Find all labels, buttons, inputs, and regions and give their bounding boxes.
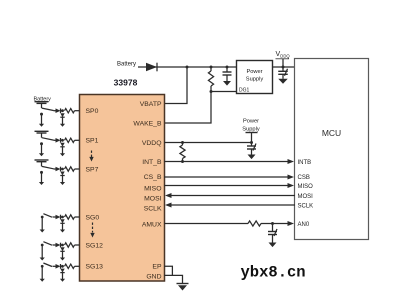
diode clamp SP1 to ground [60,143,64,154]
capacitor C1 battery input filter [223,67,232,81]
wire node down to WAKE_B pin [164,92,211,124]
wire switch rail SP1 [39,142,44,156]
ground arrow C3 [248,155,256,160]
svg-text:DG1: DG1 [239,88,250,94]
wire R3 to AN0 [261,223,288,225]
switch SG13 (to ground) [41,263,52,268]
svg-text:VBATP: VBATP [140,101,162,108]
svg-text:MISO: MISO [298,184,314,190]
wire switch rail SP0 [39,113,44,127]
MCU U2 [295,59,369,240]
wire CS_B to CSB [164,176,288,178]
svg-text:SCLK: SCLK [144,206,162,213]
svg-text:DDQ: DDQ [280,54,290,59]
junction VDDQ node [282,66,285,69]
svg-text:SG0: SG0 [86,214,100,221]
ground arrow C1 [223,81,231,86]
switch SP1 (to battery) [42,138,54,140]
wire MOSI [171,195,295,197]
junction R1 bottom node [210,90,213,93]
svg-text:ybx8.cn: ybx8.cn [241,263,306,281]
wire switch rail SG13 [40,266,45,282]
junction AN0 filter [271,222,274,225]
resistor R2 INT_B pull-up [180,143,185,162]
wire SCLK [171,204,295,206]
svg-text:MOSI: MOSI [144,196,161,203]
switch SP0 (to battery) [42,108,54,110]
junction R2 top on VDDQ [181,141,184,144]
junction SP1 node [61,139,64,142]
junction VBATP tap [186,66,189,69]
svg-text:SP0: SP0 [86,108,99,115]
svg-text:AN0: AN0 [298,222,310,228]
svg-text:SP1: SP1 [86,138,99,145]
wire EP to ground [164,266,172,275]
diode clamp SG12 [60,247,64,257]
IC U1 33978 multiple switch detection interface [80,95,165,282]
dashed arrow SG0..SG12 continuation [90,223,94,238]
dashed arrow SP1..SP7 continuation [89,151,93,162]
diode series SP7 [54,167,63,172]
junction SG13 node [61,265,64,268]
diode clamp SP7 to ground [60,172,64,183]
svg-text:GND: GND [146,273,161,280]
wire VBATP from battery line to pin [164,67,187,104]
arrowhead MISO [288,183,295,188]
svg-text:INTB: INTB [298,160,312,166]
svg-text:Battery: Battery [117,62,136,68]
junction SP7 node [61,168,64,171]
resistor R3 AMUX series [248,221,261,226]
svg-text:EP: EP [152,264,162,271]
wire switch rail SP7 [39,171,44,185]
junction SP0 node [61,109,64,112]
diode series SP1 [54,138,63,143]
ground arrow SG12 clamp [60,258,65,261]
svg-text:CS_B: CS_B [144,174,162,181]
svg-text:SG13: SG13 [86,264,104,271]
svg-text:Power: Power [246,69,262,75]
wire switch rail SG12 [40,245,45,261]
wire INT_B to INTB [164,161,288,163]
wire node to power supply DG1 input [211,91,237,93]
capacitor C2 VDD bypass [278,67,288,79]
arrowhead INTB [288,159,295,164]
wire AMUX to R3 [164,223,248,225]
svg-text:SP7: SP7 [86,166,99,173]
diode clamp SG13 [60,269,64,280]
battery symbol for SP1 switch [35,131,49,137]
resistor SG12 series [65,243,80,247]
svg-text:SG12: SG12 [86,242,104,249]
power supply block DG1 [237,61,273,94]
junction input cap tap [226,66,229,69]
diode series SG0 [53,215,63,220]
svg-text:MISO: MISO [144,186,161,193]
switch SG12 (to ground) [41,242,52,247]
capacitor C4 AN0 filter [268,224,277,243]
switch SG0 (to ground) [41,214,52,219]
svg-text:INT_B: INT_B [142,159,162,166]
battery symbol for SP0 switch [35,102,49,108]
svg-text:WAKE_B: WAKE_B [133,120,162,127]
diode series SP0 [54,108,63,113]
diode series SG12 [53,243,63,248]
ground arrow C2 [278,79,288,84]
svg-text:CSB: CSB [298,175,310,181]
ground arrow SP1 clamp [60,153,65,156]
svg-text:AMUX: AMUX [142,221,162,228]
wire switch rail SG0 [40,217,45,233]
node VDDQ supply [276,51,291,67]
svg-text:VDDQ: VDDQ [142,140,162,147]
arrowhead AN0 [288,221,295,226]
arrowhead MOSI [165,193,172,198]
svg-text:Supply: Supply [246,77,264,83]
junction WAKE_B pullup tap [210,66,213,69]
ground symbol chip GND [177,284,189,291]
battery symbol for SP7 switch [35,160,49,166]
junction SG0 node [61,216,64,219]
resistor SG13 series [65,264,80,268]
ground arrow SP0 clamp [60,124,65,127]
arrowhead CSB [288,175,295,180]
resistor SP7 series [65,167,80,171]
diode clamp SG0 [60,219,64,230]
resistor SP1 series [65,138,80,142]
resistor R1 WAKE_B pull-up [208,67,213,92]
diode series SG13 [53,264,63,269]
wire power supply output to MCU VDD [272,66,295,68]
svg-text:Power: Power [243,119,259,125]
svg-text:MOSI: MOSI [298,194,314,200]
wire VDDQ rail [164,142,252,144]
junction R2 bottom on INT_B [181,160,184,163]
wire battery feed to power supply [138,66,237,68]
ground arrow SP7 clamp [60,182,65,185]
diode clamp SP0 to ground [60,113,64,124]
resistor SG0 series [65,215,80,219]
capacitor C3 VDDQ bypass [247,143,256,155]
wire MISO [164,185,288,187]
arrowhead SCLK [165,203,172,208]
wire GND pin to ground [164,275,183,283]
node Power Supply (VDD source) [242,119,260,143]
svg-text:SCLK: SCLK [298,203,314,209]
svg-text:Supply: Supply [242,126,260,132]
ground arrow SG13 clamp [60,279,65,282]
resistor SP0 series [65,109,80,113]
ground arrow C4 [269,243,277,248]
svg-text:33978: 33978 [114,77,138,87]
ground arrow SG0 clamp [60,230,65,233]
junction SG12 node [61,244,64,247]
diode D1 series battery diode [146,63,157,72]
switch SP7 (to battery) [42,166,54,168]
junction VDDQ / supply [250,141,253,144]
svg-text:MCU: MCU [322,128,341,138]
